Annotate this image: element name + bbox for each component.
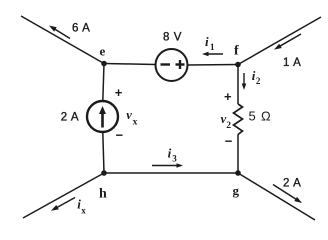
svg-text:x: x xyxy=(81,205,86,215)
wire: upper-right diagonal lead into node f xyxy=(238,17,321,65)
svg-text:2 A: 2 A xyxy=(283,178,301,190)
svg-text:f: f xyxy=(234,44,239,59)
label: i3 xyxy=(168,145,178,163)
label: i2 xyxy=(252,68,261,86)
arrow: current i1 direction (leftward above wire) xyxy=(202,52,223,57)
svg-text:h: h xyxy=(99,187,107,202)
resistor 5 ohm (zigzag) xyxy=(234,104,243,135)
svg-text:i: i xyxy=(168,145,172,160)
wire: 8 V source right terminal to node f xyxy=(188,64,239,67)
svg-text:+: + xyxy=(115,85,123,100)
label: 1 A xyxy=(283,57,301,69)
label: v2 voltage across resistor xyxy=(221,112,232,131)
arrow: 2 A current direction (down-right along lead) xyxy=(273,185,302,204)
wire: node h to node g (bottom rail) xyxy=(104,172,238,174)
label: - polarity of v2 xyxy=(225,133,233,148)
wire: node e down to 2 A source top terminal xyxy=(103,64,104,102)
svg-text:6 A: 6 A xyxy=(72,23,90,35)
svg-text:3: 3 xyxy=(172,153,177,163)
current source 2 A (circle with upward arrow) xyxy=(87,101,118,132)
wire: lower-right diagonal lead from node g xyxy=(238,173,315,220)
svg-text:2 A: 2 A xyxy=(61,112,79,124)
svg-text:x: x xyxy=(133,117,138,127)
node f (junction dot) xyxy=(235,62,241,68)
label: + polarity of vx xyxy=(115,85,123,100)
label: 8 V value of voltage source xyxy=(163,32,182,44)
label: ix xyxy=(77,197,86,216)
svg-text:5 Ω: 5 Ω xyxy=(249,109,272,124)
label: 6 A xyxy=(72,23,90,35)
svg-text:−: − xyxy=(225,133,233,148)
node e (junction dot) xyxy=(101,61,107,67)
label: 2 A value of current source xyxy=(61,112,79,124)
arrow: 6 A current direction (up-left along lead) xyxy=(49,26,70,39)
svg-text:1: 1 xyxy=(210,42,215,52)
node h (junction dot) xyxy=(101,170,107,176)
label: node name g xyxy=(233,183,240,198)
arrow: current i2 direction (downward beside wire) xyxy=(242,73,247,90)
svg-text:e: e xyxy=(100,44,106,59)
arrow: current ix direction (down-left along lead) xyxy=(51,198,75,211)
voltage source 8 V (circle with - + polarity) xyxy=(156,49,188,81)
svg-text:g: g xyxy=(233,183,240,198)
label: + polarity of v2 xyxy=(224,89,232,104)
wire: node e to 8 V source left terminal xyxy=(104,64,156,65)
label: 2 A xyxy=(283,178,301,190)
label: vx voltage across source xyxy=(126,108,137,127)
wire: lower-left diagonal lead from node h xyxy=(23,173,104,218)
svg-text:2: 2 xyxy=(256,76,261,86)
label: node name h xyxy=(99,187,107,202)
wire: upper-left diagonal lead into node e xyxy=(21,16,104,64)
svg-text:v: v xyxy=(126,108,132,122)
svg-text:+: + xyxy=(224,89,232,104)
label: node name f xyxy=(234,44,239,59)
arrow: current i3 direction (rightward above bottom rail) xyxy=(152,163,183,168)
label: - polarity of vx xyxy=(116,127,124,142)
svg-text:2: 2 xyxy=(226,121,231,131)
svg-text:8 V: 8 V xyxy=(163,32,182,44)
wire: node f down to resistor top terminal xyxy=(237,65,239,105)
wire: 2 A source bottom terminal down to node h xyxy=(103,132,104,173)
label: 5 ohm resistor value xyxy=(249,109,272,124)
label: i1 xyxy=(205,34,215,52)
svg-text:−: − xyxy=(116,127,124,142)
label: node name e xyxy=(100,44,106,59)
arrow: 1 A current direction (down-left along lead) xyxy=(274,34,301,50)
svg-text:i: i xyxy=(205,34,209,49)
svg-text:1 A: 1 A xyxy=(283,57,301,69)
wire: resistor bottom terminal down to node g xyxy=(237,135,239,174)
node g (junction dot) xyxy=(235,170,241,176)
